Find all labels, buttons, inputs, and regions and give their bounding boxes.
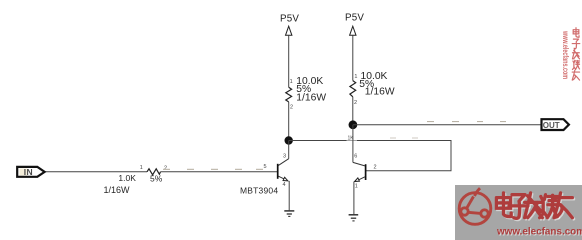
wire node B to OUT port: [353, 124, 542, 126]
svg-text:2: 2: [374, 165, 377, 171]
transistor Q1 emitter arrowhead: [283, 177, 288, 181]
transistor Q2 base diagonal from stem: [353, 162, 365, 166]
svg-text:P5V: P5V: [345, 12, 364, 23]
ground symbol under Q1: [284, 211, 294, 217]
svg-text:1/16W: 1/16W: [296, 93, 326, 104]
watermark brand glyphs 电子发烧友 red: [496, 193, 572, 218]
svg-text:1: 1: [140, 165, 143, 171]
svg-text:OUT: OUT: [543, 121, 560, 130]
wire wrap: node A to Q2 collector (right-down-left): [289, 140, 347, 142]
svg-text:3: 3: [283, 153, 286, 159]
svg-text:1/16W: 1/16W: [365, 86, 395, 97]
svg-text:2: 2: [164, 166, 167, 172]
port IN jpeg artifact tint: [20, 169, 28, 176]
resistor R1 10.0K zigzag: [286, 87, 292, 102]
resistor R2 10.0K zigzag: [350, 81, 356, 97]
svg-text:www.elecfans.com: www.elecfans.com: [561, 30, 572, 79]
junction node A (R1/Q1 collector/wrap wire): [285, 136, 293, 144]
svg-text:1: 1: [355, 184, 358, 190]
svg-text:5%: 5%: [150, 173, 163, 183]
wire R2 to node B: [352, 97, 354, 125]
transistor Q1 collector diagonal: [278, 159, 288, 166]
power symbol P5V #1 arrow: [286, 26, 292, 35]
transistor Q1 emitter diagonal: [278, 176, 284, 179]
svg-text:www.elecfans.com: www.elecfans.com: [496, 227, 582, 238]
resistor R3 1.0K zigzag: [147, 169, 161, 175]
faint artifact dashes above OUT wire: [427, 121, 506, 123]
wire Q1 emitter to ground: [288, 181, 290, 211]
watermark bottom gray box: [455, 185, 582, 240]
svg-text:2: 2: [290, 104, 293, 110]
port IN flag: [17, 167, 44, 177]
faint artifact dashes above wrap wire: [390, 137, 418, 139]
svg-text:6: 6: [354, 154, 357, 160]
svg-text:4: 4: [283, 182, 286, 188]
transistor Q2 emitter diagonal: [359, 177, 365, 180]
svg-text:5: 5: [264, 164, 267, 170]
svg-text:MBT3904: MBT3904: [240, 186, 278, 196]
transistor Q2 base bar: [365, 164, 367, 180]
wire Q1 collector to node A: [288, 141, 290, 159]
wire P5V#1 to R1: [288, 35, 290, 87]
faint artifact dashes above IN wire: [163, 168, 263, 170]
transistor Q1 base bar: [277, 164, 279, 179]
wire R3 to Q1 base (right segment): [161, 171, 278, 173]
svg-text:1: 1: [290, 79, 293, 85]
svg-text:1K: 1K: [348, 136, 355, 142]
svg-text:1: 1: [354, 74, 357, 80]
wire node B down to Q2 base: [352, 125, 354, 163]
svg-text:IN: IN: [24, 167, 33, 177]
svg-text:2: 2: [354, 100, 357, 106]
port OUT flag: [542, 119, 569, 130]
watermark logo ring: [459, 188, 491, 224]
watermark top-right vertical brand glyphs: [572, 28, 580, 80]
svg-text:1.0K: 1.0K: [118, 173, 136, 183]
wire R1 to node A: [288, 102, 290, 141]
wire P5V#2 to R2: [352, 35, 354, 80]
wire Q2 emitter to ground: [353, 182, 355, 215]
watermark brand glyphs 电子发烧友 white shadow: [498, 194, 574, 219]
svg-text:P5V: P5V: [280, 13, 299, 24]
junction node B (R2/OUT/Q2 base): [349, 120, 358, 129]
power symbol P5V #2 arrow: [350, 26, 356, 35]
transistor Q2 emitter arrowhead: [355, 178, 360, 182]
svg-text:1/16W: 1/16W: [104, 185, 131, 195]
wire IN port to Q1 base (left segment): [45, 171, 147, 173]
ground symbol under Q2: [349, 215, 359, 221]
